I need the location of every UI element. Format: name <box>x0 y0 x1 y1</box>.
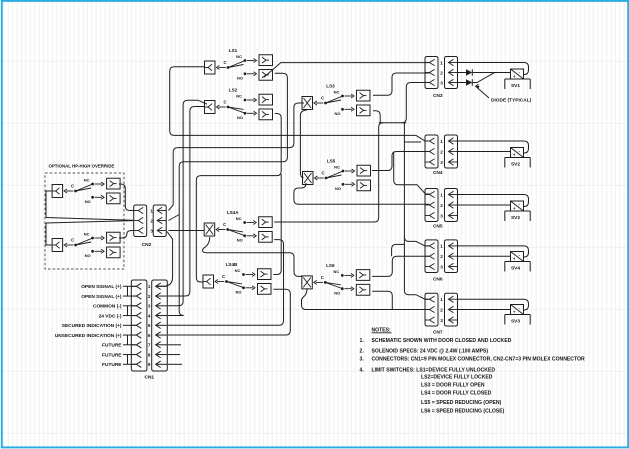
svg-text:4: 4 <box>148 313 151 318</box>
svg-text:1.: 1. <box>360 338 365 344</box>
svg-text:LS6: LS6 <box>326 263 335 268</box>
svg-text:3: 3 <box>440 80 443 85</box>
svg-text:NO: NO <box>85 253 91 258</box>
svg-text:NC: NC <box>236 54 242 59</box>
svg-text:LS3 = DOOR FULLY OPEN: LS3 = DOOR FULLY OPEN <box>421 383 485 389</box>
svg-text:OPEN SIGNAL (+): OPEN SIGNAL (+) <box>81 294 122 300</box>
svg-text:C: C <box>71 237 74 242</box>
svg-text:1: 1 <box>440 60 443 65</box>
svg-text:1: 1 <box>440 192 443 197</box>
svg-text:2: 2 <box>148 294 151 299</box>
svg-text:LIMIT SWITCHES: LS1=DEVICE FU: LIMIT SWITCHES: LS1=DEVICE FULLY UNLOCKE… <box>372 367 496 373</box>
svg-text:NO: NO <box>335 186 341 191</box>
svg-text:C: C <box>321 170 324 175</box>
svg-text:6: 6 <box>148 333 151 338</box>
svg-text:NO: NO <box>237 238 243 243</box>
svg-text:SV1: SV1 <box>511 83 520 89</box>
svg-text:SV2: SV2 <box>511 215 520 221</box>
svg-text:2: 2 <box>440 149 443 154</box>
svg-text:1: 1 <box>148 284 151 289</box>
svg-text:CN2: CN2 <box>142 242 152 248</box>
svg-text:2: 2 <box>150 218 153 223</box>
svg-text:LS2: LS2 <box>229 88 238 93</box>
svg-text:CN1: CN1 <box>144 375 154 381</box>
svg-text:LS6 = SPEED REDUCING (CLOSE): LS6 = SPEED REDUCING (CLOSE) <box>421 409 505 415</box>
svg-text:LS2=DEVICE FULLY LOCKED: LS2=DEVICE FULLY LOCKED <box>421 375 493 381</box>
svg-text:2: 2 <box>440 307 443 312</box>
svg-text:3: 3 <box>440 264 443 269</box>
svg-text:1: 1 <box>150 208 153 213</box>
svg-text:CONNECTORS: CN1=9 PIN MOLEX C: CONNECTORS: CN1=9 PIN MOLEX CONNECTOR, C… <box>372 357 585 363</box>
svg-text:24 VDC (-): 24 VDC (-) <box>99 313 122 319</box>
svg-text:LS5: LS5 <box>327 159 336 164</box>
svg-text:CN5: CN5 <box>433 224 443 230</box>
svg-text:SV4: SV4 <box>511 266 520 272</box>
svg-text:9: 9 <box>148 362 151 367</box>
svg-text:2: 2 <box>440 70 443 75</box>
svg-text:NO: NO <box>335 111 341 116</box>
svg-text:3.: 3. <box>360 357 365 363</box>
svg-text:C: C <box>321 275 324 280</box>
svg-text:FUTURE: FUTURE <box>102 343 122 349</box>
svg-text:2: 2 <box>440 254 443 259</box>
svg-text:DIODE (TYPICAL): DIODE (TYPICAL) <box>491 98 532 104</box>
svg-text:4.: 4. <box>360 367 365 373</box>
svg-text:NO: NO <box>237 76 243 81</box>
svg-text:1: 1 <box>440 139 443 144</box>
svg-text:LS4 = DOOR FULLY CLOSED: LS4 = DOOR FULLY CLOSED <box>421 390 492 396</box>
svg-text:1: 1 <box>440 297 443 302</box>
svg-text:C: C <box>223 222 226 227</box>
svg-text:NC: NC <box>84 177 90 182</box>
svg-text:NC: NC <box>84 231 90 236</box>
svg-text:7: 7 <box>148 343 151 348</box>
svg-text:C: C <box>71 183 74 188</box>
svg-text:C: C <box>223 99 226 104</box>
svg-text:C: C <box>222 274 225 279</box>
svg-text:NC: NC <box>235 268 241 273</box>
svg-text:NC: NC <box>236 93 242 98</box>
svg-text:NC: NC <box>334 89 340 94</box>
svg-text:CN4: CN4 <box>433 170 443 176</box>
svg-text:NC: NC <box>333 269 339 274</box>
svg-text:LS5 = SPEED REDUCING (OPEN): LS5 = SPEED REDUCING (OPEN) <box>421 400 502 406</box>
svg-text:NC: NC <box>236 216 242 221</box>
svg-text:8: 8 <box>148 352 151 357</box>
svg-text:OPEN SIGNAL (+): OPEN SIGNAL (+) <box>81 284 122 290</box>
svg-text:SECURED INDICATION (+): SECURED INDICATION (+) <box>62 323 122 329</box>
svg-text:SV2: SV2 <box>511 162 520 168</box>
svg-text:2: 2 <box>440 203 443 208</box>
svg-text:3: 3 <box>440 318 443 323</box>
svg-text:LS4A: LS4A <box>227 210 239 215</box>
svg-text:FUTURE: FUTURE <box>102 362 122 368</box>
svg-text:2.: 2. <box>360 349 365 355</box>
svg-text:SOLENOID SPECS: 24 VDC @ 2.4W: SOLENOID SPECS: 24 VDC @ 2.4W (.100 AMPS… <box>372 349 489 355</box>
svg-text:OPTIONAL HP-HIGH OVERRIDE: OPTIONAL HP-HIGH OVERRIDE <box>49 164 115 169</box>
svg-text:CN3: CN3 <box>433 93 443 99</box>
svg-text:NO: NO <box>334 291 340 296</box>
svg-text:SV3: SV3 <box>511 319 520 325</box>
svg-text:3: 3 <box>150 228 153 233</box>
svg-text:3: 3 <box>440 213 443 218</box>
svg-text:UNSECURED INDICATION (+): UNSECURED INDICATION (+) <box>55 333 122 339</box>
svg-text:NC: NC <box>334 164 340 169</box>
svg-text:FUTURE: FUTURE <box>102 352 122 358</box>
svg-text:SCHEMATIC SHOWN WITH DOOR CLOS: SCHEMATIC SHOWN WITH DOOR CLOSED AND LOC… <box>372 338 512 344</box>
svg-text:5: 5 <box>148 323 151 328</box>
svg-text:C: C <box>321 95 324 100</box>
svg-text:COMMON (-): COMMON (-) <box>93 304 122 310</box>
svg-text:LS3: LS3 <box>326 84 335 89</box>
svg-text:LS1: LS1 <box>229 48 238 53</box>
svg-text:3: 3 <box>440 160 443 165</box>
svg-text:NO: NO <box>236 290 242 295</box>
svg-text:3: 3 <box>148 304 151 309</box>
svg-text:CN7: CN7 <box>433 330 443 336</box>
svg-text:1: 1 <box>440 244 443 249</box>
svg-text:CN6: CN6 <box>433 277 443 283</box>
svg-text:NO: NO <box>237 115 243 120</box>
svg-text:LS4B: LS4B <box>226 262 238 267</box>
svg-text:C: C <box>223 60 226 65</box>
svg-text:NO: NO <box>85 199 91 204</box>
